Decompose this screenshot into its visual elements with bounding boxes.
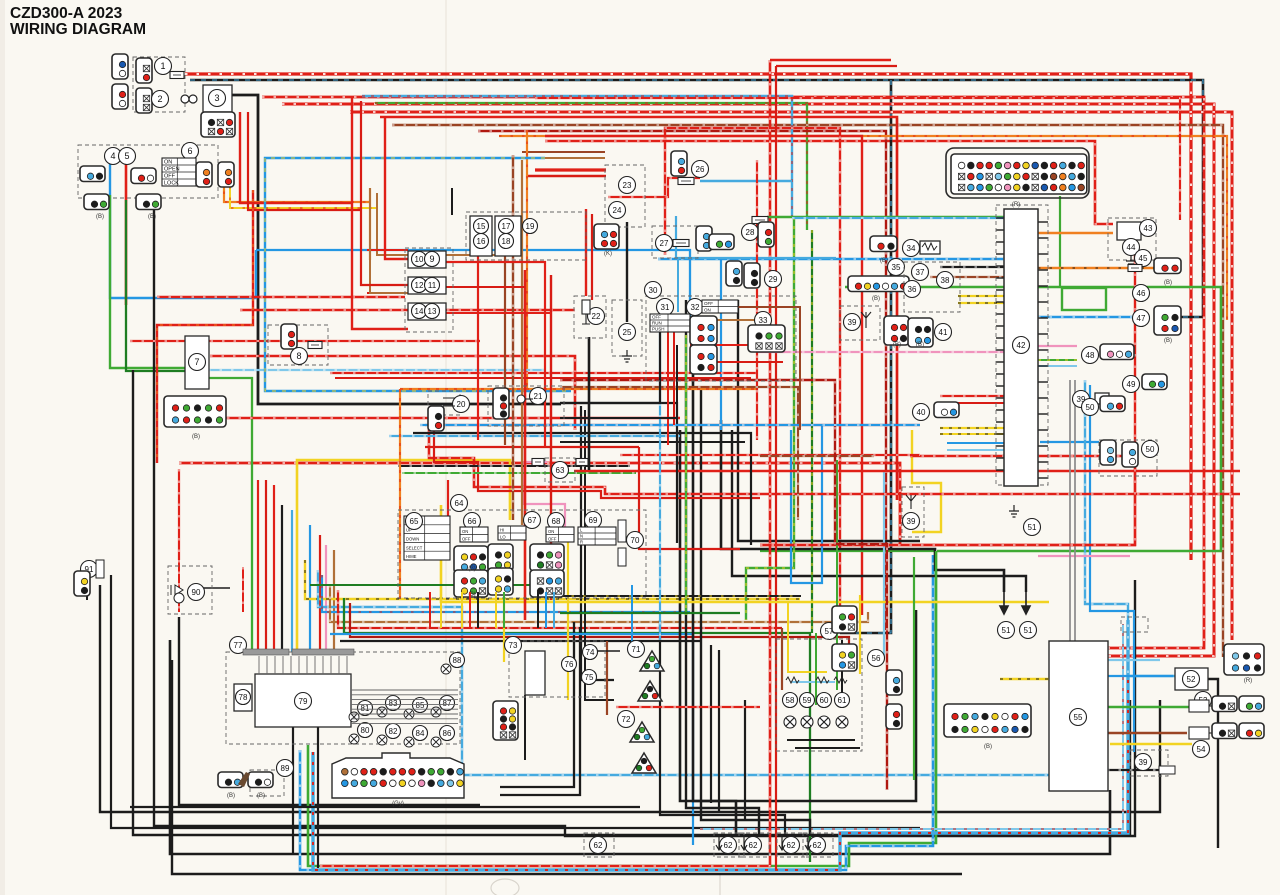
component 55 (1070, 709, 1087, 726)
component 6 ignition switch (182, 143, 199, 160)
connector B 16p (944, 704, 1031, 737)
wire L bottom long (300, 555, 933, 870)
table 66 (460, 527, 488, 542)
svg-text:CZD300-A 2023: CZD300-A 2023 (10, 5, 123, 22)
wire R harness top (380, 117, 897, 500)
wire R fuse8 run (210, 356, 575, 430)
wire Br coil2 feed (1108, 732, 1187, 734)
svg-text:22: 22 (592, 312, 601, 321)
wire 90 link (195, 587, 230, 589)
wire G/R top (375, 103, 807, 230)
wire R relay stub a (367, 249, 408, 251)
fuse 8 (308, 342, 322, 349)
wire L/R bottom pair (313, 620, 1128, 870)
component 87 indicator (440, 696, 455, 711)
wire R relay link (446, 262, 545, 447)
dashed box 43-44 (1108, 218, 1156, 260)
wire meter R drop4 (319, 535, 321, 652)
component 43 (1140, 220, 1157, 237)
dashed box 37-38 (904, 262, 960, 312)
box relay 9-10 (408, 251, 446, 268)
ecu stub L14 (996, 385, 1004, 387)
wire meter L drop (309, 525, 311, 652)
connector ign E (84, 194, 109, 210)
wire R band 378 (335, 377, 751, 379)
component 91 (81, 561, 98, 578)
component 23 relay (619, 177, 636, 194)
wire switch drop (461, 592, 463, 628)
svg-text:ON: ON (548, 529, 554, 534)
component 18 callout (499, 234, 514, 249)
component 58 (783, 693, 798, 708)
wire Sky 56 drop (883, 470, 885, 658)
wire meter B drop (281, 505, 283, 652)
connector battery B (112, 84, 128, 109)
wire R 23 feed thick (535, 168, 606, 171)
wire Sky 27 run (676, 216, 836, 258)
wire Sky 52 feed 1 (1085, 380, 1175, 676)
svg-text:60: 60 (820, 696, 829, 705)
table 65 (404, 516, 450, 560)
component 21 clutch switch (530, 388, 547, 405)
ecu stub L8 (996, 313, 1004, 315)
antenna symbol 62d (805, 835, 811, 850)
component 83 indicator (386, 696, 401, 711)
connector starter relay (136, 88, 152, 113)
dashed box ECU (996, 205, 1048, 485)
svg-text:51: 51 (1028, 523, 1037, 532)
wire Sky 48 feed (1038, 365, 1077, 367)
component 7 rectifier (189, 354, 206, 371)
component 34 (903, 240, 920, 257)
component 36 (904, 281, 921, 298)
component 68 (548, 513, 565, 530)
wire 91 stub (86, 583, 88, 600)
fuse 63b (576, 459, 588, 466)
svg-text:31: 31 (661, 303, 670, 312)
svg-text:36: 36 (908, 285, 917, 294)
component 41 (935, 324, 952, 341)
wire Br 33 link (700, 319, 760, 321)
connector starter 6p (201, 112, 235, 137)
component 40 (913, 404, 930, 421)
svg-text:45: 45 (1139, 254, 1148, 263)
wire P right spur (1038, 555, 1130, 557)
component 73 (505, 637, 522, 654)
connector fuse8 (281, 324, 297, 349)
wire L 46 feed (1038, 316, 1150, 318)
wire Sky/R top run (362, 96, 792, 218)
svg-text:81: 81 (361, 704, 370, 713)
dashed box 22 (574, 296, 606, 338)
wire R ecu in2 (948, 402, 1004, 404)
component 30 (645, 282, 662, 299)
component 1 main fuse (155, 58, 172, 75)
svg-text:62: 62 (749, 841, 758, 850)
wire relay15 top (451, 188, 453, 215)
svg-text:54: 54 (1197, 745, 1206, 754)
wire B bottom left long (130, 806, 640, 808)
connector ign F (136, 194, 161, 210)
wire L/Y meter band (265, 158, 571, 391)
svg-text:39: 39 (848, 318, 857, 327)
ecu stub L10 (996, 337, 1004, 339)
component 39 keyless (903, 513, 920, 530)
svg-text:84: 84 (416, 729, 425, 738)
connector R2 6p (1224, 644, 1264, 675)
table start switch (702, 300, 738, 313)
component 44 (1123, 239, 1140, 256)
wire G 61 drop (815, 633, 817, 705)
ecu stub L16 (996, 409, 1004, 411)
component 25 (619, 324, 636, 341)
component 10 callout (412, 252, 427, 267)
wire switch drop (469, 592, 471, 628)
component 62a (720, 837, 737, 854)
svg-text:33: 33 (759, 316, 768, 325)
svg-text:23: 23 (623, 181, 632, 190)
component 39b (1135, 754, 1152, 771)
wire Br/R band (338, 590, 782, 628)
wire R ring 4 (535, 98, 1180, 220)
component 78 (236, 690, 251, 705)
wire Br 23 b (522, 151, 605, 153)
ecu stub R2 (1038, 253, 1048, 255)
wire R staircase run (429, 420, 1240, 494)
wire Sky/R diag pair (700, 624, 1123, 829)
wire Sky diag band (318, 570, 1100, 775)
component 28 fuse (742, 224, 759, 241)
ecu stub L0 (996, 217, 1004, 219)
component 51 ground c (1020, 622, 1037, 639)
component 88 indicator (450, 653, 465, 668)
component 20 (453, 396, 470, 413)
svg-text:OFF: OFF (462, 536, 471, 541)
svg-text:10: 10 (415, 255, 424, 264)
wire Br/W band (330, 585, 868, 622)
wire G drop 936 (935, 551, 937, 790)
dashed box 39 antenna (840, 306, 880, 340)
ecu stub L18 (996, 433, 1004, 435)
wire O lean angle (1038, 232, 1113, 235)
svg-text:(R): (R) (1244, 678, 1252, 684)
box lean sensor (1117, 222, 1141, 240)
indicator lamp 82 (377, 735, 387, 745)
svg-text:80: 80 (361, 726, 370, 735)
wire B center drop 2b (660, 620, 785, 836)
component 72 (618, 711, 635, 728)
component 47 (1133, 310, 1150, 327)
component 82 indicator (386, 724, 401, 739)
component 85 indicator (413, 698, 428, 713)
wire R relay drop 1 (352, 96, 408, 329)
ecu stub L13 (996, 373, 1004, 375)
svg-text:RUN: RUN (652, 321, 662, 326)
wire B bottom long (170, 640, 1110, 854)
wire 90 diode leg (178, 560, 180, 612)
component 19 (523, 219, 538, 234)
wire Sky ecu in (947, 449, 1004, 451)
component 27 fuse (656, 235, 673, 252)
svg-text:13: 13 (428, 307, 437, 316)
svg-text:19: 19 (526, 222, 535, 231)
connector battery A (112, 54, 128, 79)
svg-text:1: 1 (160, 61, 165, 71)
inline fuse 54 (1159, 766, 1175, 774)
svg-text:86: 86 (443, 729, 452, 738)
wire P 68 feed (524, 462, 565, 529)
wire Y/B ecu in3 (940, 427, 1004, 429)
connector turn FL (630, 722, 654, 742)
component 49 (1123, 376, 1140, 393)
component 62b (745, 837, 762, 854)
wire L meter run (256, 250, 690, 318)
wire Ch band left (760, 455, 874, 457)
connector 54b (1239, 723, 1264, 739)
svg-text:6: 6 (187, 146, 192, 156)
component 79 (295, 693, 312, 710)
dashed box ignition switch (78, 145, 218, 198)
table 67 (498, 526, 526, 540)
svg-text:62: 62 (813, 841, 822, 850)
wire R main fuse feed (185, 74, 1191, 560)
wire R ring 3 (350, 112, 1232, 640)
wire G right ring (845, 287, 1221, 551)
wire switch drop (429, 592, 431, 628)
box rectifier 7 (185, 336, 209, 389)
wire L drop (720, 259, 722, 430)
wire G/W cluster top (402, 472, 636, 474)
svg-text:(B): (B) (880, 258, 888, 264)
box resistor 34 (920, 241, 940, 254)
connector 50b (1100, 396, 1125, 412)
ecu stub R1 (1038, 237, 1048, 239)
wire O/R drop (526, 130, 528, 390)
component 69 (585, 512, 602, 529)
indicator lamp 80 (349, 734, 359, 744)
ecu stub L7 (996, 301, 1004, 303)
component 9 callout (425, 252, 440, 267)
wire R ring 2 (282, 104, 1214, 656)
svg-text:74: 74 (586, 648, 595, 657)
component 16 callout (474, 234, 489, 249)
wire meter G drop (208, 378, 252, 652)
wire R mid band (425, 424, 920, 426)
svg-text:87: 87 (443, 699, 452, 708)
wire Y switch drop 2 (567, 541, 569, 700)
svg-text:(R): (R) (1012, 202, 1020, 208)
component 4 (105, 148, 122, 165)
component 11 callout (425, 278, 440, 293)
wire checker bus (787, 739, 855, 741)
svg-text:66: 66 (468, 517, 477, 526)
svg-text:(B): (B) (148, 214, 156, 220)
wire Y switch drop (509, 493, 511, 520)
box relay 11-12 (408, 277, 446, 294)
ecu stub L1 (996, 229, 1004, 231)
wire R 22 feed1 (585, 209, 587, 296)
ecu stub R3 (1038, 269, 1048, 271)
connector turn FR (640, 651, 664, 671)
ecu stub L21 (996, 469, 1004, 471)
component 26 fuse (692, 161, 709, 178)
connector 89b (218, 772, 243, 788)
connector 67a (488, 544, 513, 571)
connector 68a (530, 544, 564, 571)
wire B nest left 2 (500, 627, 580, 795)
component 74 (583, 645, 598, 660)
svg-text:63: 63 (556, 466, 565, 475)
ecu stub R14 (1038, 445, 1048, 447)
wire shield gray a (1069, 380, 1071, 641)
svg-text:39: 39 (907, 517, 916, 526)
wire B/W cluster top (398, 465, 630, 467)
wire O/R ign drop1 (369, 188, 371, 260)
component 35 (888, 259, 905, 276)
wire B meter down2 (317, 727, 319, 868)
dashed box 73-76 (509, 641, 605, 697)
svg-text:65: 65 (410, 517, 419, 526)
component 46 (1133, 285, 1150, 302)
table 69 (578, 527, 616, 545)
connector 48 (1100, 344, 1134, 360)
svg-text:39: 39 (1139, 758, 1148, 767)
connector 33c (748, 325, 785, 352)
wire R diode drop (178, 469, 180, 560)
connector 53 (1212, 696, 1237, 712)
connector 33b (690, 345, 717, 374)
connector 49b (1142, 374, 1167, 390)
ecu stub L19 (996, 445, 1004, 447)
dashed box 21 (488, 386, 564, 426)
wire DG band (344, 598, 810, 862)
ecu stub R9 (1038, 365, 1048, 367)
connector ign A (80, 166, 105, 182)
component 8 fuse (291, 348, 308, 365)
wire R/B center weave (560, 380, 887, 790)
wire R 33 drop (756, 160, 758, 440)
box 78 (234, 684, 252, 711)
fuse 91 (96, 560, 104, 578)
svg-text:8: 8 (296, 351, 301, 361)
connector 41a (884, 316, 909, 345)
wire Ch 58 drop (781, 628, 783, 690)
component 5 (119, 148, 136, 165)
svg-text:56: 56 (872, 654, 881, 663)
ecu stub R15 (1038, 461, 1048, 463)
wire R coil drop 3 (896, 118, 898, 500)
wire merge marker (1134, 230, 1136, 545)
indicator lamp 88 (441, 664, 451, 674)
box starter motor 3 (203, 85, 232, 112)
connector 26 (671, 151, 687, 176)
dashed box fuse 1-2 (133, 57, 185, 112)
ecu stub L12 (996, 361, 1004, 363)
wire R relay drop 2 (361, 101, 408, 285)
wire Br ecu in (930, 276, 1004, 278)
wire L/B headlight feed (190, 80, 1203, 317)
component 50 keyless (1142, 441, 1159, 458)
ground 25 (622, 350, 632, 362)
dashed box 62b (739, 833, 769, 857)
component 48 (1082, 347, 1099, 364)
wire shield gray b (1074, 380, 1076, 641)
ecu stub L20 (996, 457, 1004, 459)
meter internal leads (259, 656, 458, 724)
wire R band 455 (620, 454, 920, 456)
svg-text:29: 29 (769, 275, 778, 284)
wire stub none (740, 548, 760, 550)
wire Br drop2 (521, 160, 523, 525)
svg-text:71: 71 (632, 645, 641, 654)
wire R/W accessory run (179, 463, 900, 545)
connector 29a (726, 261, 742, 286)
sidestand switch 20 symbol (443, 398, 455, 406)
svg-text:11: 11 (428, 281, 437, 290)
wire R right band (760, 456, 1135, 545)
ecu stub R13 (1038, 429, 1048, 431)
wire G 73 run (560, 612, 740, 614)
wire Br center weave (560, 387, 798, 520)
component 39c (1073, 391, 1090, 408)
wire B flasher run (340, 640, 700, 642)
connector 40 (934, 402, 959, 418)
dashed box 27 (652, 226, 698, 258)
dashed box 20 (428, 391, 460, 415)
wire B left frame 3 (100, 585, 1160, 812)
connector 73 (493, 701, 518, 740)
connector 54 (1212, 723, 1237, 739)
ecu stub L11 (996, 349, 1004, 351)
wire Y 73 drop (503, 599, 505, 662)
svg-text:47: 47 (1137, 314, 1146, 323)
wire G conn drop (1059, 196, 1061, 287)
svg-text:OFF: OFF (548, 536, 557, 541)
wire Br ign drop2 (377, 193, 515, 255)
component 57 (821, 623, 838, 640)
resistors 58-61 (786, 677, 847, 683)
component 64 (451, 495, 468, 512)
svg-text:ON: ON (164, 159, 172, 165)
indicator lamp 84 (404, 737, 414, 747)
svg-text:(B): (B) (192, 434, 200, 440)
meter connector caps (243, 649, 354, 655)
svg-text:2: 2 (157, 94, 162, 104)
wire G ecu feed (767, 216, 1005, 218)
wire meter R drop1 (257, 480, 259, 652)
component 32 start switch (687, 299, 704, 316)
svg-text:70: 70 (631, 536, 640, 545)
connector 29b (744, 263, 760, 288)
svg-text:HI: HI (500, 527, 504, 532)
svg-text:30: 30 (649, 286, 658, 295)
wire R 33 link (690, 344, 756, 346)
wire R batt drop 1 (240, 112, 352, 203)
component 70 (627, 532, 644, 549)
spark plug 22 (582, 300, 590, 324)
wire L 52 feed 2 (1090, 385, 1134, 752)
dashed box keyless 39 (902, 487, 924, 537)
component 76 (562, 657, 577, 672)
component 45 (1135, 250, 1152, 267)
wire R horn run (240, 309, 575, 311)
resistor 70 (618, 520, 626, 566)
ground arrows 51 (1000, 592, 1030, 614)
wire B left frame 1 (133, 370, 1130, 835)
wire B 55 to fuse (1107, 769, 1159, 771)
table 68 (546, 527, 574, 542)
ecu stub R7 (1038, 333, 1048, 335)
